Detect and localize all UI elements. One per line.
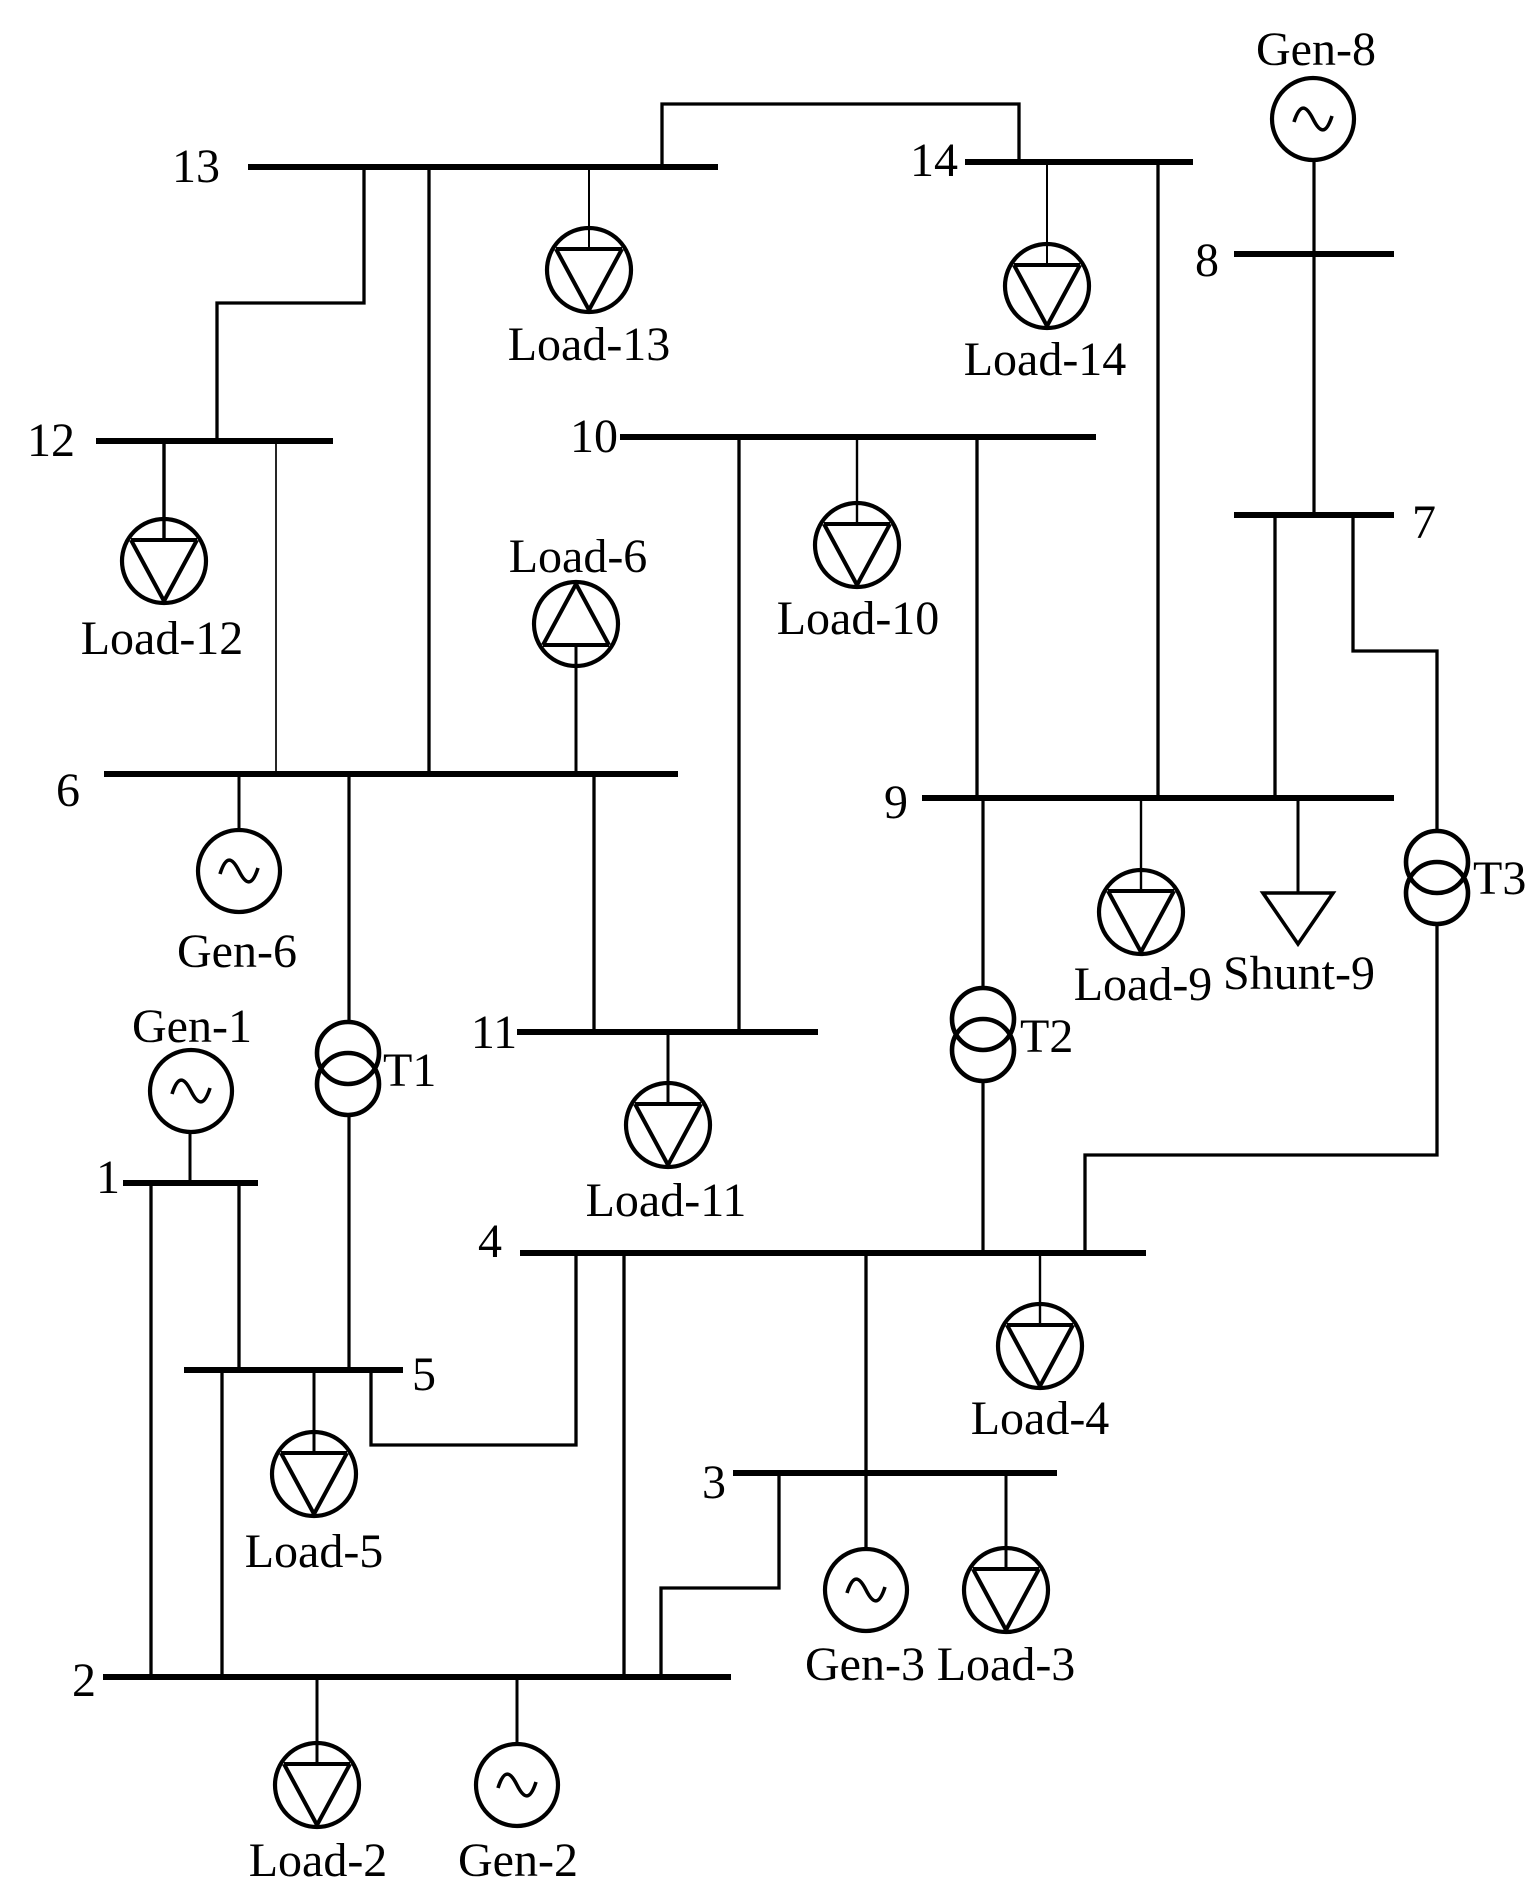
svg-text:1: 1 bbox=[96, 1151, 120, 1204]
bus 6 bbox=[56, 764, 678, 817]
load Load-5 bbox=[245, 1370, 384, 1578]
svg-text:7: 7 bbox=[1412, 496, 1436, 549]
transformer T3 bbox=[1406, 831, 1526, 924]
bus 2 bbox=[72, 1654, 731, 1707]
transformer T2 bbox=[952, 988, 1073, 1081]
wire Gen-2 stem bbox=[516, 1677, 519, 1744]
svg-text:Load-11: Load-11 bbox=[586, 1174, 747, 1227]
wire 6-T1 upper bbox=[347, 774, 350, 1022]
svg-text:12: 12 bbox=[27, 414, 75, 467]
bus 3 bbox=[702, 1456, 1057, 1509]
bus 13 bbox=[172, 140, 718, 193]
wire 13-14 link bbox=[662, 104, 1019, 167]
svg-text:Gen-3: Gen-3 bbox=[805, 1638, 925, 1691]
wire 10-9 bbox=[975, 437, 978, 798]
wire 7-9 bbox=[1273, 515, 1276, 798]
wire 8-7 (Gen-8 feeder) bbox=[1312, 160, 1315, 515]
bus 8 bbox=[1195, 234, 1394, 287]
wire Gen-1 stem bbox=[189, 1132, 192, 1183]
svg-text:11: 11 bbox=[471, 1006, 517, 1059]
load Load-2 bbox=[249, 1677, 388, 1887]
wire 13-12 bbox=[217, 167, 364, 441]
svg-text:9: 9 bbox=[884, 776, 908, 829]
wire T2-4 lower bbox=[981, 1081, 984, 1253]
load Load-4 bbox=[971, 1253, 1110, 1445]
svg-text:Gen-6: Gen-6 bbox=[177, 925, 297, 978]
svg-text:T1: T1 bbox=[383, 1044, 436, 1097]
load Load-9 bbox=[1074, 798, 1213, 1011]
svg-text:Load-3: Load-3 bbox=[937, 1638, 1076, 1691]
wire 12-6 bbox=[275, 441, 277, 774]
load Load-14 bbox=[964, 162, 1127, 386]
generator Gen-2 bbox=[458, 1744, 578, 1887]
wire 1-5 bbox=[237, 1183, 240, 1370]
wire 7-T3 upper bbox=[1353, 515, 1437, 831]
bus 1 bbox=[96, 1151, 258, 1204]
svg-text:Load-2: Load-2 bbox=[249, 1834, 388, 1887]
svg-text:Gen-2: Gen-2 bbox=[458, 1834, 578, 1887]
bus 4 bbox=[478, 1215, 1146, 1268]
svg-text:Load-13: Load-13 bbox=[508, 318, 671, 371]
load Load-10 bbox=[777, 437, 940, 645]
svg-text:2: 2 bbox=[72, 1654, 96, 1707]
wire 13-6 bbox=[427, 167, 430, 774]
load Load-6 bbox=[509, 530, 648, 774]
wire T3-4 lower bbox=[1085, 924, 1437, 1253]
bus 9 bbox=[884, 776, 1394, 829]
bus 7 bbox=[1234, 496, 1436, 549]
load Load-3 bbox=[937, 1473, 1076, 1691]
bus 14 bbox=[910, 134, 1193, 187]
bus 5 bbox=[184, 1348, 436, 1401]
generator Gen-8 bbox=[1256, 23, 1376, 160]
wire 1-2 bbox=[149, 1183, 152, 1677]
svg-text:14: 14 bbox=[910, 134, 958, 187]
wire 5-2 bbox=[220, 1370, 223, 1677]
svg-text:Gen-8: Gen-8 bbox=[1256, 23, 1376, 76]
generator Gen-1 bbox=[132, 1000, 252, 1132]
bus 12 bbox=[27, 414, 333, 467]
generator Gen-3 bbox=[805, 1549, 925, 1691]
transformer T1 bbox=[317, 1022, 436, 1115]
svg-text:6: 6 bbox=[56, 764, 80, 817]
svg-text:13: 13 bbox=[172, 140, 220, 193]
load Load-13 bbox=[508, 167, 671, 371]
load Load-11 bbox=[586, 1032, 747, 1227]
wire 3-2 link bbox=[661, 1473, 779, 1677]
svg-text:T2: T2 bbox=[1020, 1010, 1073, 1063]
svg-text:Load-5: Load-5 bbox=[245, 1525, 384, 1578]
svg-text:Load-9: Load-9 bbox=[1074, 958, 1213, 1011]
wire 4-3 (Gen-3 feeder) bbox=[864, 1253, 867, 1549]
wire Gen-6 stem bbox=[238, 774, 241, 830]
svg-text:Load-14: Load-14 bbox=[964, 333, 1127, 386]
svg-text:Gen-1: Gen-1 bbox=[132, 1000, 252, 1053]
wire 14-9 bbox=[1156, 162, 1159, 798]
svg-text:3: 3 bbox=[702, 1456, 726, 1509]
svg-text:8: 8 bbox=[1195, 234, 1219, 287]
bus 11 bbox=[471, 1006, 818, 1059]
generator Gen-6 bbox=[177, 830, 297, 978]
wire 9-T2 upper bbox=[981, 798, 984, 988]
wire 5-4 link bbox=[371, 1253, 576, 1445]
svg-text:Load-10: Load-10 bbox=[777, 592, 940, 645]
wire 10-11 bbox=[737, 437, 740, 1032]
shunt Shunt-9 bbox=[1223, 798, 1375, 1000]
wire 4-2 bbox=[622, 1253, 625, 1677]
svg-text:Load-12: Load-12 bbox=[81, 612, 244, 665]
load Load-12 bbox=[81, 441, 244, 665]
svg-text:4: 4 bbox=[478, 1215, 502, 1268]
wire 6-11 bbox=[592, 774, 595, 1032]
svg-text:Shunt-9: Shunt-9 bbox=[1223, 947, 1375, 1000]
svg-text:5: 5 bbox=[412, 1348, 436, 1401]
svg-text:Load-4: Load-4 bbox=[971, 1392, 1110, 1445]
bus 10 bbox=[570, 410, 1096, 463]
wire T1-5 lower bbox=[347, 1115, 350, 1370]
svg-text:Load-6: Load-6 bbox=[509, 530, 648, 583]
svg-text:T3: T3 bbox=[1473, 852, 1526, 905]
svg-text:10: 10 bbox=[570, 410, 618, 463]
